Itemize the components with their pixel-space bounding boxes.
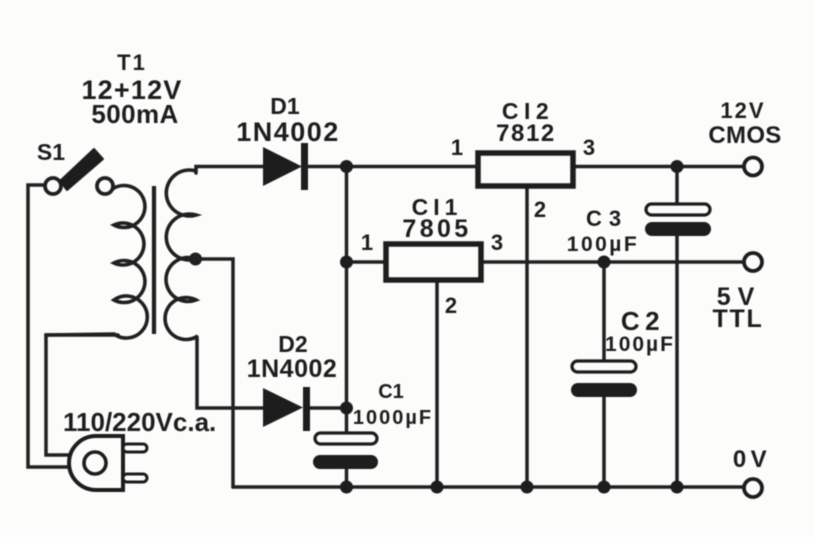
wire D1 cathode to CI2 pin1: [309, 165, 477, 169]
svg-text:D2: D2: [278, 331, 307, 357]
svg-text:3: 3: [583, 135, 595, 160]
wire C2 bottom to ground: [602, 396, 606, 487]
svg-text:C1: C1: [378, 381, 404, 403]
svg-text:TTL: TTL: [713, 305, 764, 333]
regulator CI1 7805 body: [386, 244, 481, 280]
wire CI1 pin3 to 5V terminal: [481, 260, 744, 264]
wire 12V node to C3 top: [675, 167, 679, 205]
svg-text:CMOS: CMOS: [708, 122, 781, 149]
svg-text:100µF: 100µF: [567, 233, 639, 256]
node 12V / C3: [671, 160, 684, 173]
transformer T1 core: [152, 186, 156, 334]
wire CI2 pin2 to ground: [525, 187, 529, 487]
svg-text:1N4002: 1N4002: [247, 355, 338, 383]
wire secondary top to D1 anode: [196, 167, 263, 174]
wire node to CI1 pin1: [347, 260, 387, 264]
svg-text:1: 1: [361, 230, 373, 255]
wire CI2 pin3 to 12V terminal: [574, 165, 744, 169]
capacitor C1 plates: [313, 433, 378, 469]
transformer T1 primary winding: [46, 186, 147, 338]
wire 5V node to C2 top: [602, 262, 606, 361]
terminal 12V: [744, 158, 762, 176]
wire D2 cathode to C1 node: [310, 406, 347, 410]
wire center tap to ground: [195, 259, 233, 487]
plug hole: [84, 452, 106, 474]
node D2 output / C1: [340, 402, 353, 415]
wire C1 bottom plate to ground: [345, 468, 349, 487]
switch S1 open contact: [97, 178, 113, 194]
node ground C1: [340, 481, 353, 494]
wire CI1 pin2 to ground: [435, 281, 439, 487]
wire primary bottom to plug: [46, 335, 118, 455]
svg-text:12V: 12V: [720, 98, 765, 123]
switch S1 lever: [60, 149, 103, 190]
plug prong lower: [123, 474, 147, 482]
svg-text:1: 1: [451, 135, 463, 160]
switch S1 pivot contact: [45, 178, 61, 194]
svg-text:D1: D1: [270, 93, 300, 119]
svg-text:C2: C2: [621, 306, 665, 336]
wire ground rail: [233, 485, 744, 489]
wire S1 to plug: [28, 185, 70, 467]
node D1 output: [340, 160, 353, 173]
node ground C3: [671, 481, 684, 494]
node ground CI1: [431, 481, 444, 494]
wire secondary bottom to D2 anode: [197, 337, 263, 408]
node 5V / C2: [598, 256, 611, 269]
plug 110/220V body: [69, 436, 123, 490]
svg-text:3: 3: [491, 230, 503, 255]
terminal 0V: [744, 479, 762, 497]
diode D2: [263, 387, 310, 431]
svg-text:0V: 0V: [733, 446, 771, 473]
svg-text:2: 2: [445, 293, 457, 318]
plug prong upper: [123, 444, 147, 452]
svg-text:C3: C3: [586, 206, 628, 231]
capacitor C3 plates: [645, 204, 711, 236]
terminal 5V: [744, 253, 762, 271]
svg-text:T1: T1: [117, 50, 147, 75]
svg-text:S1: S1: [37, 139, 65, 165]
node center tap of secondary: [189, 253, 202, 266]
svg-text:100µF: 100µF: [605, 333, 675, 356]
regulator CI2 7812 body: [478, 153, 573, 186]
transformer T1 secondary winding: [165, 170, 197, 340]
wire node D1 down to CI1 input and D2 node (vertical bus): [345, 167, 349, 409]
svg-text:2: 2: [534, 197, 546, 222]
wire C3 bottom to ground: [675, 235, 679, 487]
node ground C2: [598, 481, 611, 494]
svg-text:110/220Vc.a.: 110/220Vc.a.: [63, 407, 216, 437]
svg-text:7812: 7812: [496, 120, 556, 147]
node ground CI2: [521, 481, 534, 494]
wire C1 node to C1 top plate: [345, 408, 349, 433]
node CI1 input: [340, 256, 353, 269]
svg-text:1000µF: 1000µF: [353, 407, 433, 429]
svg-text:500mA: 500mA: [91, 99, 178, 129]
capacitor C2 plates: [571, 361, 637, 397]
svg-text:1N4002: 1N4002: [236, 117, 340, 147]
svg-text:7805: 7805: [402, 215, 471, 243]
diode D1: [263, 143, 308, 190]
